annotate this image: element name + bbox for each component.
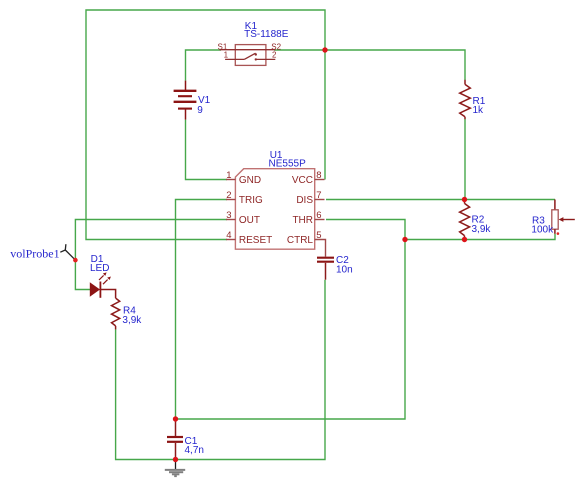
svg-text:GND: GND: [239, 175, 261, 186]
capacitor C2 10n: [315, 240, 353, 280]
svg-text:3,9k: 3,9k: [122, 315, 142, 326]
LED D1: [90, 254, 116, 298]
svg-text:3: 3: [226, 210, 231, 221]
svg-text:LED: LED: [90, 263, 109, 274]
svg-text:2: 2: [272, 51, 277, 60]
battery V1: [174, 81, 211, 120]
svg-text:4,7n: 4,7n: [185, 445, 204, 456]
junction node THR corner: [402, 237, 407, 242]
svg-text:4: 4: [226, 230, 231, 241]
wire TRIG pin2 down to C1 junction: [176, 200, 228, 420]
svg-text:1: 1: [224, 51, 229, 60]
wire net RESET/top/VCC: (227,239.5)-(86,239.5)-(86,10)-(325,10)-(325,179.5): [86, 10, 325, 240]
junction node C1 bottom / ground: [173, 457, 178, 462]
wire battery bottom to GND pin1: [186, 120, 228, 180]
junction node C1 top: [173, 416, 178, 421]
svg-text:2: 2: [226, 190, 231, 201]
svg-text:NE555P: NE555P: [269, 158, 307, 169]
junction node R2 bottom: [462, 237, 467, 242]
svg-text:OUT: OUT: [239, 215, 260, 226]
wire bottom R2/R3 row: [405, 234, 555, 240]
svg-text:100k: 100k: [531, 225, 554, 236]
wire THR pin6 down to y419 across to C1: [176, 220, 406, 420]
svg-text:8: 8: [316, 170, 321, 181]
svg-text:7: 7: [316, 190, 321, 201]
resistor R1 1k: [460, 80, 486, 119]
IC U1 NE555P: [226, 150, 325, 249]
resistor R2 3,9k: [460, 200, 492, 240]
relay/switch K1 TS-1188E: [218, 21, 289, 65]
probe volProbe1: [10, 244, 77, 262]
svg-text:6: 6: [316, 210, 321, 221]
wire R1 bottom to DIS junction: [464, 119, 466, 200]
wire DIS pin7 to R3 top: [326, 199, 555, 201]
svg-text:3,9k: 3,9k: [472, 224, 492, 235]
svg-text:DIS: DIS: [296, 195, 313, 206]
junction node DIS/R1/R2: [462, 197, 467, 202]
svg-text:10n: 10n: [336, 265, 353, 276]
capacitor C1 4,7n: [167, 419, 204, 459]
resistor R4 3,9k: [112, 298, 143, 329]
svg-text:CTRL: CTRL: [287, 235, 314, 246]
svg-text:1k: 1k: [473, 105, 485, 116]
svg-text:THR: THR: [292, 215, 313, 226]
wire OUT pin3 to LED anode: [75, 220, 227, 290]
potentiometer R3 100k: [531, 200, 574, 236]
svg-text:TRIG: TRIG: [239, 195, 263, 206]
wire switch S2 to R1 top: [274, 50, 465, 80]
wire battery top to switch S1: [186, 50, 222, 81]
wire R4 bottom, ground rail, up to C2 bottom: [116, 280, 325, 460]
svg-text:TS-1188E: TS-1188E: [244, 29, 289, 40]
ground: [165, 461, 185, 476]
svg-text:volProbe1: volProbe1: [10, 247, 59, 261]
junction node switch/R1/VCC: [322, 47, 327, 52]
svg-text:VCC: VCC: [292, 175, 313, 186]
svg-text:RESET: RESET: [239, 235, 272, 246]
svg-text:1: 1: [226, 170, 231, 181]
svg-text:9: 9: [197, 105, 203, 116]
